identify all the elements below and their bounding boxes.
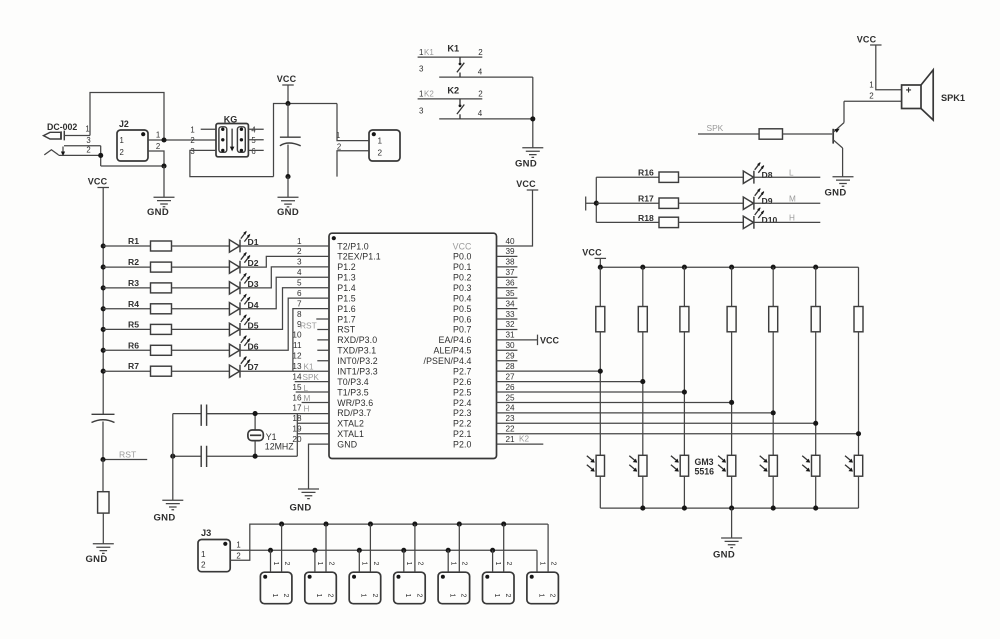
photoresistor GM7: [845, 455, 863, 508]
wire U1 P2.5 to column 3: [497, 391, 685, 393]
junctions J3 pin1 bus: [268, 548, 495, 553]
svg-text:12: 12: [292, 352, 302, 361]
wire bus R16-R18: [595, 177, 597, 222]
wire R19 to Q1 base: [783, 133, 833, 135]
svg-text:5: 5: [297, 279, 302, 288]
svg-text:2: 2: [190, 136, 194, 145]
svg-text:2: 2: [869, 92, 874, 101]
wire C3 to U1 pin17 row: [207, 413, 329, 415]
ground GND (K1 K2): [522, 148, 543, 158]
svg-text:GND: GND: [147, 207, 169, 218]
svg-text:1: 1: [450, 562, 457, 566]
node SPK: [698, 133, 759, 135]
svg-text:P2.4: P2.4: [453, 398, 472, 408]
svg-text:17: 17: [292, 404, 302, 413]
svg-text:34: 34: [506, 299, 516, 308]
svg-text:P0.6: P0.6: [453, 314, 472, 324]
svg-text:1: 1: [538, 562, 545, 566]
wire U1 P2.2 to column 6: [497, 422, 816, 424]
svg-text:12MHZ: 12MHZ: [265, 441, 294, 451]
junction column 1: [598, 369, 603, 374]
resistor R3: [103, 278, 229, 293]
svg-text:1: 1: [405, 562, 412, 566]
svg-text:7: 7: [297, 299, 302, 308]
svg-text:K2: K2: [447, 85, 459, 95]
svg-text:T2EX/P1.1: T2EX/P1.1: [337, 252, 380, 262]
svg-text:24: 24: [506, 404, 516, 413]
photoresistor GM3: [671, 455, 689, 508]
svg-text:33: 33: [506, 310, 516, 319]
svg-text:6: 6: [297, 289, 302, 298]
svg-text:VCC: VCC: [516, 179, 536, 189]
svg-text:ALE/P4.5: ALE/P4.5: [434, 346, 472, 356]
resistor R1: [103, 236, 229, 251]
svg-text:XTAL1: XTAL1: [337, 429, 364, 439]
svg-text:P0.0: P0.0: [453, 252, 472, 262]
button module B6: [483, 524, 515, 604]
svg-text:GND: GND: [85, 554, 107, 565]
photoresistor GM2: [629, 455, 647, 508]
svg-text:GM3: GM3: [695, 457, 714, 467]
svg-text:2: 2: [283, 562, 290, 566]
resistor R9 (column 1): [596, 267, 605, 455]
svg-text:GND: GND: [713, 550, 735, 561]
wire J1 pin2 to GND net: [101, 146, 164, 166]
power VCC (U1 pin40): [527, 189, 539, 191]
svg-text:38: 38: [506, 258, 516, 267]
svg-text:2: 2: [478, 48, 483, 57]
svg-text:P1.7: P1.7: [337, 314, 356, 324]
power VCC (left bus): [97, 187, 109, 189]
speaker SPK1: [902, 70, 965, 120]
svg-text:SPK: SPK: [303, 373, 320, 382]
svg-text:39: 39: [506, 247, 516, 256]
svg-text:13: 13: [292, 362, 302, 371]
switch K2: [418, 85, 533, 119]
svg-text:21: 21: [506, 435, 516, 444]
LED D4: [229, 277, 329, 315]
svg-text:3: 3: [190, 147, 194, 156]
LED D3: [229, 267, 329, 294]
svg-text:11: 11: [293, 341, 302, 350]
resistor R4: [103, 299, 229, 314]
junction C1 bottom / loop: [285, 174, 290, 179]
LED D6: [229, 298, 329, 357]
svg-text:1: 1: [201, 550, 206, 559]
svg-text:8: 8: [297, 310, 302, 319]
resistor R19: [759, 129, 782, 139]
junction column 2: [640, 379, 645, 384]
svg-text:29: 29: [506, 352, 516, 361]
svg-text:VCC: VCC: [540, 335, 560, 345]
svg-text:GND: GND: [824, 188, 846, 199]
junctions VCC bus R1-R7: [101, 243, 106, 373]
button module B1: [260, 524, 292, 604]
svg-text:2: 2: [327, 562, 334, 566]
svg-text:3: 3: [297, 258, 302, 267]
svg-text:J2: J2: [119, 119, 129, 129]
wire C4 row: [255, 455, 297, 457]
capacitor C3: [173, 405, 255, 426]
crystal Y1 12MHZ: [248, 414, 294, 457]
svg-text:1: 1: [404, 594, 411, 598]
svg-text:4: 4: [478, 67, 483, 76]
svg-text:1: 1: [494, 562, 501, 566]
svg-text:2: 2: [86, 146, 90, 155]
wire U1 P2.6 to column 2: [497, 381, 643, 383]
svg-text:R7: R7: [128, 361, 139, 371]
power VCC (sensor array): [595, 257, 607, 259]
junction column 7: [856, 431, 861, 436]
wire U1 pin20 to GND: [309, 444, 330, 489]
svg-text:16: 16: [292, 393, 302, 402]
svg-text:2: 2: [156, 142, 160, 151]
svg-text:25: 25: [506, 393, 516, 402]
svg-text:P0.3: P0.3: [453, 283, 472, 293]
button module B7: [527, 524, 559, 604]
resistor R16: [596, 168, 743, 183]
button module B4: [394, 524, 426, 604]
LED D8: [743, 162, 820, 184]
svg-text:1: 1: [85, 125, 89, 134]
svg-text:2: 2: [460, 594, 467, 598]
svg-text:3: 3: [419, 65, 424, 74]
svg-text:/PSEN/P4.4: /PSEN/P4.4: [424, 356, 472, 366]
resistor R11 (column 3): [680, 267, 689, 455]
svg-text:DC-002: DC-002: [47, 122, 77, 132]
svg-text:3: 3: [86, 136, 90, 145]
svg-text:VCC: VCC: [582, 248, 602, 258]
svg-text:TXD/P3.1: TXD/P3.1: [337, 346, 376, 356]
svg-text:P0.7: P0.7: [453, 325, 472, 335]
svg-text:SPK: SPK: [707, 123, 724, 133]
svg-text:P2.7: P2.7: [453, 366, 472, 376]
power VCC tick (U1 pin31 EA): [497, 335, 538, 345]
capacitor C1: [280, 104, 301, 177]
svg-text:1: 1: [236, 541, 240, 550]
svg-text:22: 22: [506, 425, 516, 434]
photoresistor GM4: [718, 455, 736, 508]
resistor R13 (column 5): [769, 267, 778, 455]
svg-text:K1: K1: [447, 44, 459, 54]
photoresistor GM6: [802, 455, 820, 508]
svg-text:SPK1: SPK1: [941, 93, 965, 103]
svg-text:2: 2: [371, 594, 378, 598]
svg-text:1: 1: [537, 594, 544, 598]
button module B2: [305, 524, 337, 604]
resistor R6: [103, 340, 229, 355]
junctions bottom bus: [640, 506, 818, 511]
wire U1 pin40 to VCC: [497, 190, 533, 246]
svg-text:T0/P3.4: T0/P3.4: [337, 377, 369, 387]
svg-text:T2/P1.0: T2/P1.0: [337, 241, 369, 251]
svg-text:P1.4: P1.4: [337, 283, 356, 293]
junction VCC / top loop: [285, 101, 290, 106]
svg-text:1: 1: [297, 237, 302, 246]
svg-text:GND: GND: [153, 513, 175, 524]
button module B5: [438, 524, 470, 604]
capacitor C4: [173, 446, 255, 467]
svg-text:2: 2: [504, 594, 511, 598]
svg-text:P2.1: P2.1: [453, 429, 472, 439]
svg-text:P0.4: P0.4: [453, 293, 472, 303]
svg-text:2: 2: [550, 562, 557, 566]
svg-text:K2: K2: [519, 435, 529, 444]
svg-text:R6: R6: [128, 340, 139, 350]
svg-text:INT0/P3.2: INT0/P3.2: [337, 356, 378, 366]
wire VCC to SPK1 pin1: [876, 45, 902, 90]
capacitor C2 (RST): [92, 414, 115, 459]
svg-text:P2.2: P2.2: [453, 419, 472, 429]
svg-text:VCC: VCC: [453, 241, 472, 251]
svg-text:31: 31: [506, 331, 516, 340]
svg-text:R4: R4: [128, 299, 139, 309]
wire VCC top bus (sensor array): [600, 266, 858, 268]
svg-text:P1.6: P1.6: [337, 304, 356, 314]
wire bottom loop up to top loop: [274, 104, 338, 177]
svg-text:2: 2: [297, 247, 302, 256]
node K2 (U1 pin21): [497, 443, 544, 445]
svg-text:2: 2: [461, 562, 468, 566]
svg-text:R17: R17: [638, 194, 654, 204]
svg-text:EA/P4.6: EA/P4.6: [439, 335, 472, 345]
svg-text:2: 2: [120, 148, 124, 157]
junction column 5: [771, 410, 776, 415]
svg-text:1: 1: [869, 81, 874, 90]
junction column 6: [813, 421, 818, 426]
svg-text:P2.6: P2.6: [453, 377, 472, 387]
svg-text:14: 14: [292, 372, 302, 381]
svg-text:M: M: [304, 394, 311, 403]
MCU U1 (8051): [292, 233, 515, 458]
svg-text:GND: GND: [337, 439, 357, 449]
junction bus R17: [594, 201, 599, 206]
svg-text:37: 37: [506, 268, 516, 277]
svg-text:VCC: VCC: [277, 74, 297, 84]
wire to ground (C1): [287, 177, 289, 198]
wire stubs U1 right pins 39-32,30,29: [497, 256, 518, 360]
svg-text:R5: R5: [128, 319, 139, 329]
svg-text:2: 2: [337, 143, 341, 152]
svg-text:2: 2: [372, 562, 379, 566]
LED D2: [229, 252, 329, 274]
resistor R10 (column 2): [638, 267, 647, 455]
svg-text:J3: J3: [201, 528, 211, 538]
svg-text:P0.5: P0.5: [453, 304, 472, 314]
svg-text:35: 35: [506, 289, 516, 298]
ground GND (Q1): [833, 177, 854, 187]
wire J3 pin1 bus: [230, 549, 537, 551]
svg-text:1: 1: [190, 126, 194, 135]
connector J3: [198, 528, 241, 572]
LED D7: [229, 309, 329, 378]
resistor R14 (column 6): [811, 267, 820, 455]
svg-text:4: 4: [251, 126, 256, 135]
svg-text:D9: D9: [762, 196, 773, 206]
wire VCC bus for R1-R7: [102, 188, 104, 415]
wire J2 pin2 down to GND net: [148, 151, 164, 166]
svg-text:P0.2: P0.2: [453, 273, 472, 283]
svg-text:6: 6: [251, 147, 255, 156]
wire J2 pin1 to KG pin2: [148, 139, 216, 141]
svg-text:VCC: VCC: [857, 35, 877, 45]
svg-text:K1: K1: [304, 363, 314, 372]
wire stubs U1 left pins 8-12,14,15,16: [295, 319, 329, 402]
svg-text:5516: 5516: [695, 467, 715, 477]
photoresistor GM5: [760, 455, 778, 508]
power VCC (SPK1): [870, 44, 882, 46]
svg-text:26: 26: [506, 383, 516, 392]
junctions J3 pin2 bus: [279, 522, 506, 527]
svg-text:M: M: [789, 194, 796, 203]
svg-text:D8: D8: [762, 170, 773, 180]
svg-text:27: 27: [506, 372, 516, 381]
svg-text:10: 10: [292, 331, 302, 340]
svg-text:L: L: [789, 168, 794, 177]
wire top loop to P1 pin1: [337, 104, 369, 141]
resistor R5: [103, 319, 229, 334]
ground GND (sensor array): [721, 538, 742, 548]
junctions crystal: [170, 411, 257, 459]
svg-text:WR/P3.6: WR/P3.6: [337, 398, 373, 408]
svg-text:R16: R16: [638, 168, 654, 178]
svg-text:3: 3: [419, 106, 424, 115]
svg-text:2: 2: [505, 562, 512, 566]
svg-text:2: 2: [416, 562, 423, 566]
svg-text:P0.1: P0.1: [453, 262, 472, 272]
junction column 4: [729, 400, 734, 405]
wire stub U1 pin19 XTAL1: [297, 433, 329, 435]
wire U1 P2.4 to column 4: [497, 401, 732, 403]
svg-text:2: 2: [549, 594, 556, 598]
wire KG pin3 to bottom loop: [190, 150, 274, 176]
ground GND (U1 pin20): [298, 489, 319, 499]
svg-text:GND: GND: [277, 207, 299, 218]
svg-text:R1: R1: [128, 236, 139, 246]
resistor R2: [103, 257, 229, 272]
wire U1 P2.3 to column 5: [497, 412, 774, 414]
resistor R7: [103, 361, 229, 376]
LED D5: [229, 288, 329, 336]
ground GND (J2): [154, 197, 175, 207]
svg-text:INT1/P3.3: INT1/P3.3: [337, 366, 378, 376]
wire bottom bus to ground: [731, 508, 733, 538]
svg-text:P1.3: P1.3: [337, 273, 356, 283]
svg-text:GND: GND: [289, 503, 311, 514]
wire U1 P2.1 to column 7: [497, 433, 859, 435]
svg-text:36: 36: [506, 279, 516, 288]
ground GND (RST): [93, 544, 114, 554]
connector J1 DC-002 power jack: [44, 122, 101, 156]
svg-text:4: 4: [297, 268, 302, 277]
junction RST: [100, 457, 105, 462]
junction J1 pin2: [98, 153, 103, 158]
svg-text:RST: RST: [337, 325, 355, 335]
svg-text:1: 1: [493, 594, 500, 598]
svg-text:2: 2: [326, 594, 333, 598]
junctions top bus: [598, 265, 819, 270]
resistor R18: [596, 213, 743, 228]
wire U1 P2.7 to column 1: [497, 370, 601, 372]
svg-text:1: 1: [156, 131, 160, 140]
svg-text:P2.5: P2.5: [453, 387, 472, 397]
resistor R12 (column 4): [727, 267, 736, 455]
svg-text:K1: K1: [424, 48, 434, 57]
svg-text:15: 15: [292, 383, 302, 392]
wire D7 row to U1 pin13: [293, 370, 329, 372]
svg-text:2: 2: [236, 552, 240, 561]
transistor Q1: [833, 101, 844, 176]
wire stub U1 pin18 XTAL2: [297, 422, 329, 424]
svg-text:T1/P3.5: T1/P3.5: [337, 387, 369, 397]
LED D9: [743, 188, 820, 210]
svg-text:30: 30: [506, 341, 516, 350]
connector P1: [336, 130, 400, 161]
svg-text:RST: RST: [119, 450, 137, 460]
wire to ground (J2): [163, 166, 165, 197]
svg-text:RD/P3.7: RD/P3.7: [337, 408, 371, 418]
node RST: [103, 459, 147, 461]
photoresistor GM1: [587, 455, 605, 508]
connector J2: [117, 119, 160, 161]
svg-text:H: H: [789, 214, 795, 223]
svg-text:1: 1: [449, 594, 456, 598]
svg-text:R2: R2: [128, 257, 139, 267]
svg-text:1: 1: [271, 594, 278, 598]
junction J2 pin2 / GND: [161, 163, 166, 168]
switch K1: [418, 44, 533, 78]
svg-text:4: 4: [478, 109, 483, 118]
wire J3 pin2 bus: [230, 524, 548, 560]
svg-text:P1.2: P1.2: [337, 262, 356, 272]
svg-text:P2.0: P2.0: [453, 439, 472, 449]
svg-text:1: 1: [360, 594, 367, 598]
svg-text:GND: GND: [515, 159, 537, 170]
svg-text:1: 1: [316, 562, 323, 566]
ground GND (crystal): [162, 500, 183, 510]
svg-text:P2.3: P2.3: [453, 408, 472, 418]
svg-text:+: +: [906, 86, 912, 97]
wire Q1 emitter to SPK1 pin2: [844, 100, 902, 102]
LED D10: [743, 207, 820, 229]
svg-text:D10: D10: [762, 215, 778, 225]
wire K1/K2 pin4 to GND: [532, 77, 534, 148]
wire left leg to ground: [172, 414, 174, 500]
junction K2 pin4: [530, 116, 535, 121]
svg-text:40: 40: [506, 237, 516, 246]
svg-text:2: 2: [282, 594, 289, 598]
wire J1 pin1 to J2 pin1 (top loop): [90, 93, 164, 141]
wire bottom bus (sensor array): [600, 507, 858, 509]
switch KG: [190, 115, 263, 157]
svg-text:RXD/P3.0: RXD/P3.0: [337, 335, 377, 345]
svg-text:1: 1: [361, 562, 368, 566]
svg-text:5: 5: [251, 136, 256, 145]
svg-text:R18: R18: [638, 213, 654, 223]
svg-text:XTAL2: XTAL2: [337, 419, 364, 429]
svg-text:32: 32: [506, 320, 516, 329]
svg-text:2: 2: [478, 90, 483, 99]
svg-text:2: 2: [378, 149, 383, 158]
LED D1: [229, 231, 329, 253]
wire bottom loop to P1 pin2: [337, 151, 369, 177]
button module B3: [349, 524, 381, 604]
svg-text:1: 1: [315, 594, 322, 598]
svg-text:R3: R3: [128, 278, 139, 288]
svg-text:H: H: [304, 404, 310, 413]
port terminal (R16-18 bus): [586, 197, 597, 211]
power VCC (C1): [282, 84, 294, 86]
